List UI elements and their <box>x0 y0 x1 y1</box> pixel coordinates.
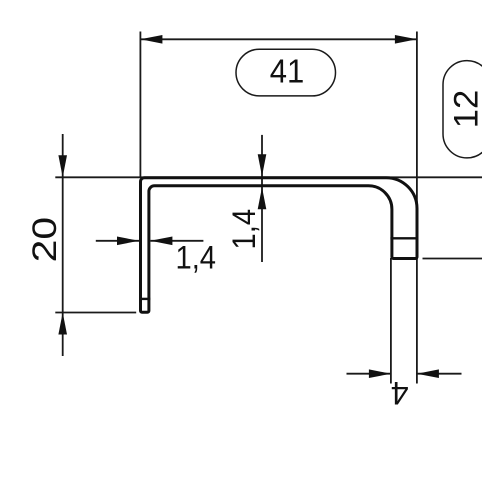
dimension line 41 <box>140 38 417 40</box>
extension line left of dim 41 <box>139 32 141 177</box>
dimension line 4 left segment <box>347 373 391 375</box>
arrow 41 right <box>395 35 417 44</box>
arrow 4 right <box>417 369 439 378</box>
crossbar left leg <box>139 298 150 300</box>
arrow 20 top <box>58 155 67 177</box>
arrow 1,4 bottom <box>258 187 267 209</box>
dimension line 1,4 (top wall, vertical) <box>261 135 263 262</box>
profile outline <box>141 178 418 313</box>
right reference line 12 bottom <box>423 258 482 260</box>
arrow 1,4 right <box>150 237 172 246</box>
balloon 41 <box>236 49 336 96</box>
svg-text:4: 4 <box>391 375 409 411</box>
dimension line 20 <box>62 134 64 356</box>
svg-text:1,4: 1,4 <box>176 240 217 276</box>
extension line top of dim 20 / right reference line 12 top <box>55 176 482 178</box>
arrow 20 bottom <box>58 313 67 335</box>
arrow 4 left <box>369 369 391 378</box>
svg-text:41: 41 <box>270 53 305 90</box>
arrow 1,4 top <box>258 154 267 176</box>
svg-text:20: 20 <box>26 217 64 263</box>
balloon 12 <box>443 61 482 158</box>
extension line right of dim 41 / dim 4 <box>416 32 418 384</box>
svg-text:1,4: 1,4 <box>226 209 262 250</box>
extension line bottom of dim 20 <box>55 312 136 314</box>
svg-text:12: 12 <box>448 90 482 129</box>
extension line left of dim 4 <box>390 258 392 384</box>
dimension line 1,4 (left leg) left segment <box>96 240 139 242</box>
dimension line 1,4 (left leg) right segment <box>150 240 203 242</box>
dimension line 4 right segment <box>417 373 462 375</box>
arrow 1,4 left <box>117 237 139 246</box>
crossbar right leg <box>390 237 418 239</box>
arrow 41 left <box>140 35 162 44</box>
